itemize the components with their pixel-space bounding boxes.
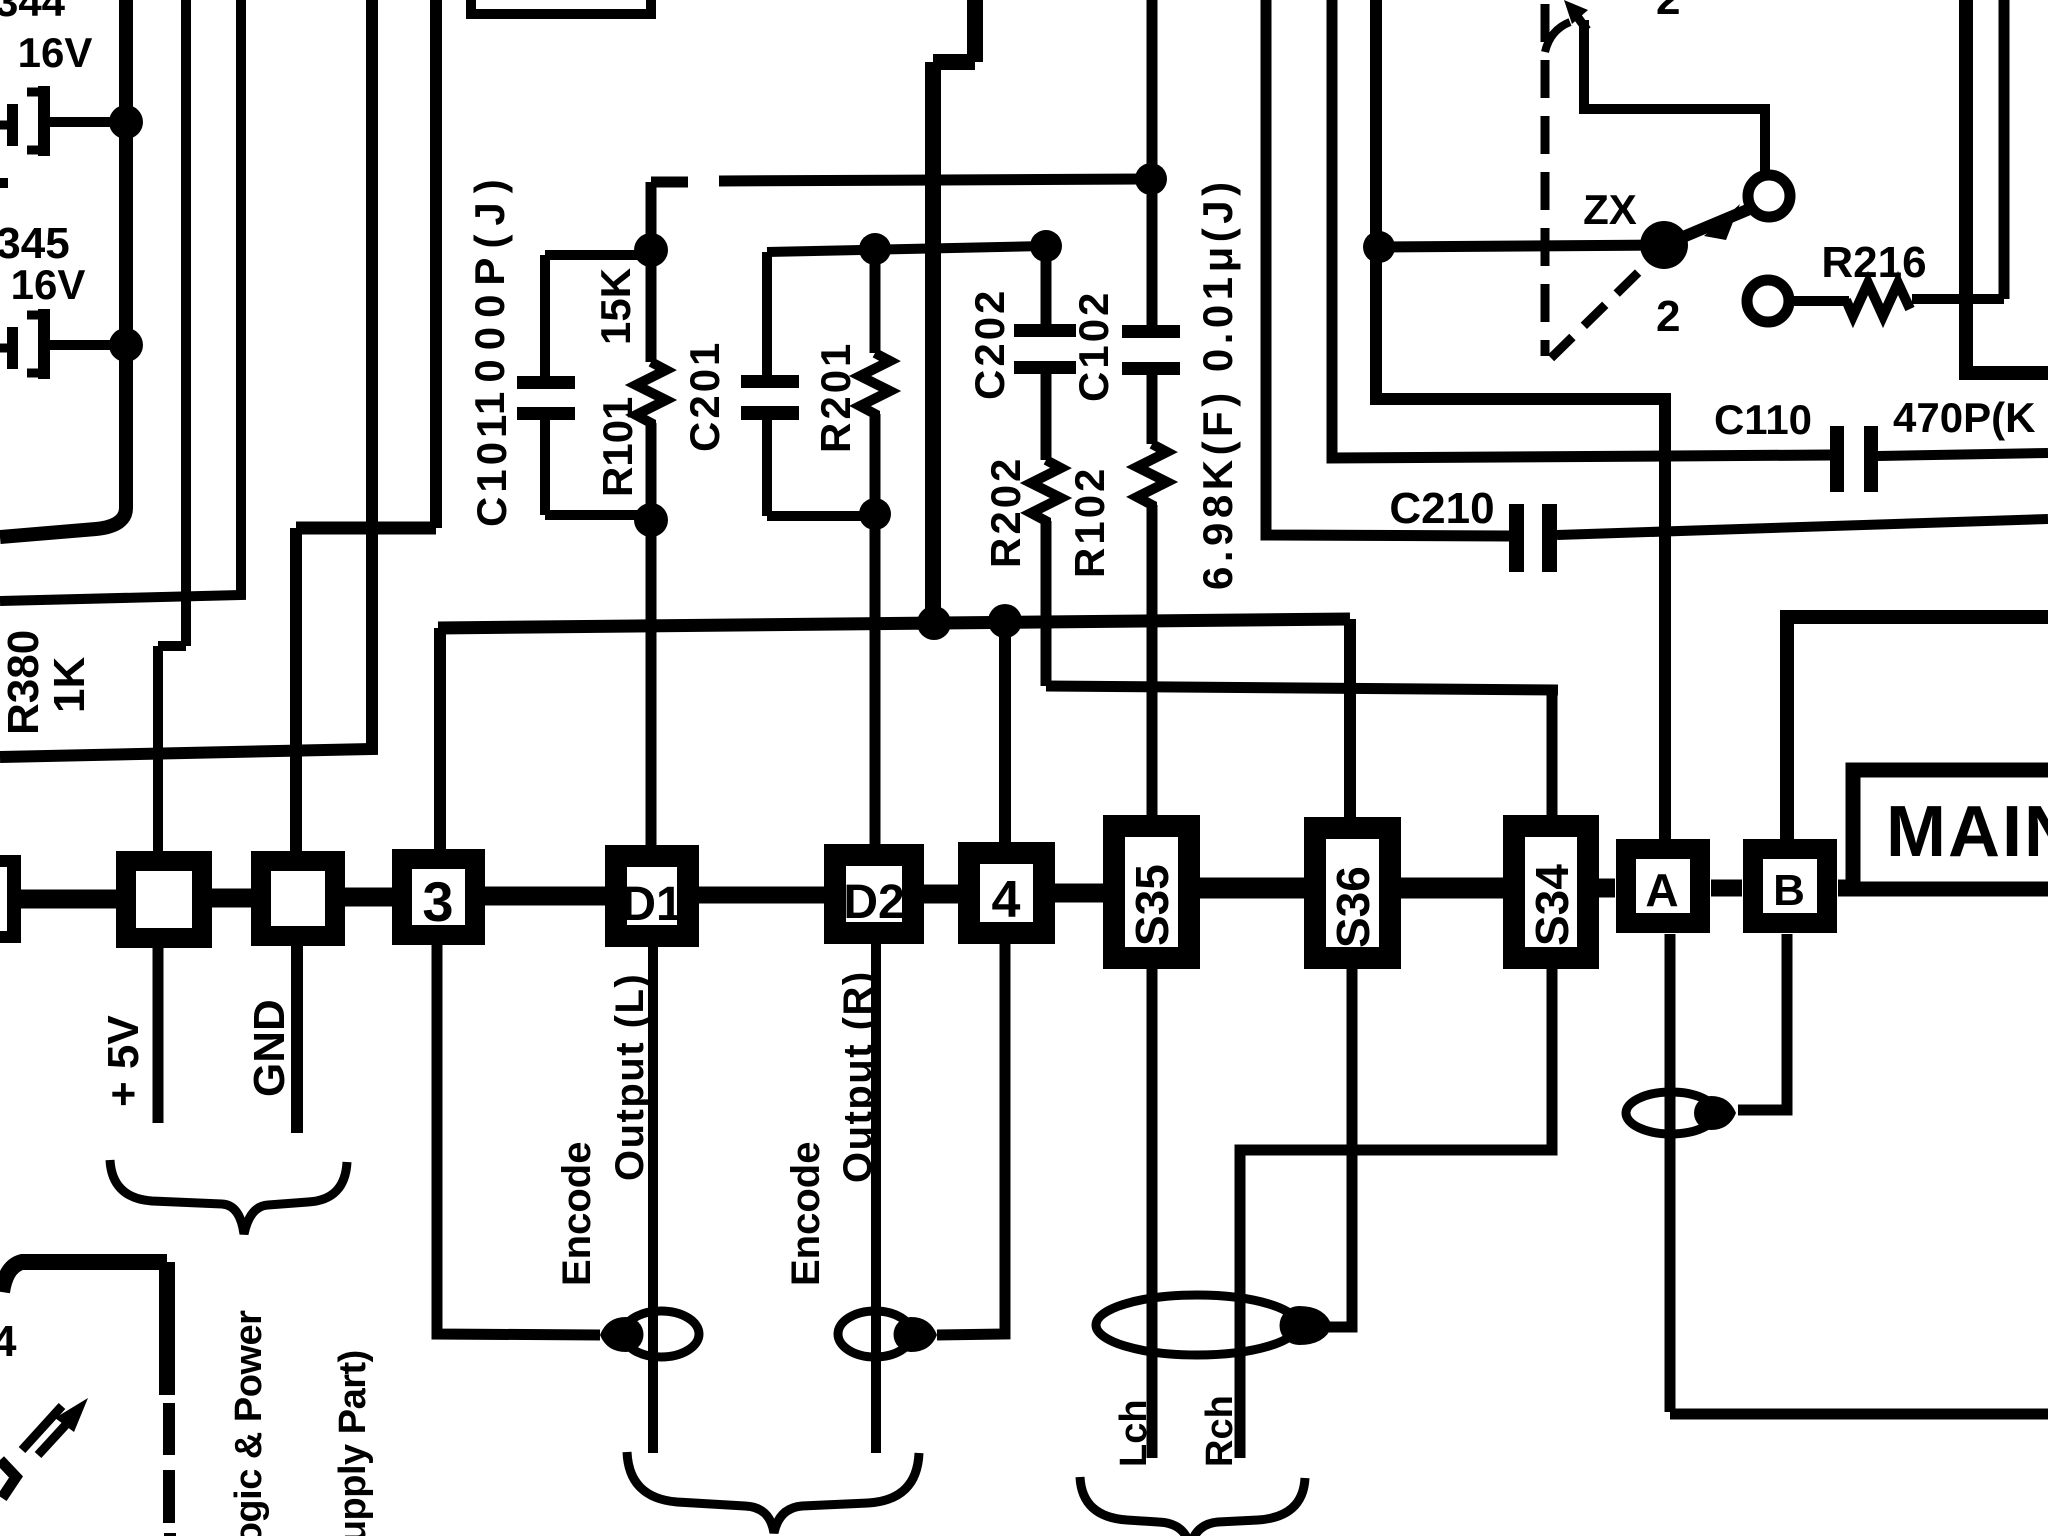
- svg-text:S35: S35: [1126, 864, 1178, 946]
- svg-text:S34: S34: [1526, 864, 1578, 946]
- svg-text:2: 2: [1656, 0, 1680, 24]
- svg-text:D1: D1: [621, 878, 682, 931]
- svg-text:D2: D2: [843, 876, 904, 929]
- svg-text:C201: C201: [681, 340, 728, 452]
- svg-text:470P(K: 470P(K: [1893, 394, 2035, 441]
- svg-text:6.98K(F) 0.01μ(J): 6.98K(F) 0.01μ(J): [1194, 177, 1241, 590]
- svg-text:S36: S36: [1327, 866, 1379, 948]
- svg-text:ZX: ZX: [1583, 186, 1637, 233]
- svg-text:C110: C110: [1714, 396, 1812, 443]
- svg-text:GND: GND: [245, 999, 294, 1097]
- svg-text:+ 5V: + 5V: [99, 1015, 148, 1107]
- svg-text:MAIN: MAIN: [1886, 792, 2048, 872]
- svg-text:C101: C101: [468, 411, 515, 527]
- svg-text:C102: C102: [1070, 290, 1117, 402]
- svg-text:A: A: [1645, 864, 1678, 916]
- svg-text:Logic & Power: Logic & Power: [228, 1310, 270, 1536]
- svg-text:4: 4: [0, 1317, 17, 1366]
- svg-text:344: 344: [0, 0, 66, 25]
- svg-text:16V: 16V: [11, 261, 86, 308]
- svg-text:1000P(J): 1000P(J): [466, 170, 513, 415]
- svg-text:1K: 1K: [45, 657, 94, 713]
- svg-text:3: 3: [422, 870, 453, 933]
- svg-text:Output (R): Output (R): [836, 970, 880, 1183]
- svg-text:C210: C210: [1389, 484, 1494, 533]
- svg-text:15K: 15K: [592, 268, 639, 345]
- svg-text:R216: R216: [1821, 238, 1926, 287]
- svg-text:R380: R380: [0, 630, 48, 735]
- svg-text:Supply Part): Supply Part): [332, 1350, 374, 1536]
- svg-text:R102: R102: [1066, 466, 1113, 578]
- svg-text:C202: C202: [966, 288, 1013, 400]
- svg-text:Lch: Lch: [1113, 1399, 1155, 1467]
- svg-text:Rch: Rch: [1199, 1395, 1241, 1467]
- svg-text:R202: R202: [982, 456, 1029, 568]
- svg-text:Encode: Encode: [784, 1142, 828, 1286]
- svg-text:R101: R101: [594, 397, 641, 497]
- svg-text:B: B: [1773, 866, 1805, 915]
- svg-text:16V: 16V: [18, 29, 93, 76]
- svg-text:R201: R201: [812, 341, 859, 453]
- svg-text:Output (L): Output (L): [608, 973, 652, 1181]
- svg-text:4: 4: [992, 871, 1021, 929]
- svg-text:Encode: Encode: [555, 1142, 599, 1286]
- svg-text:2: 2: [1656, 292, 1680, 341]
